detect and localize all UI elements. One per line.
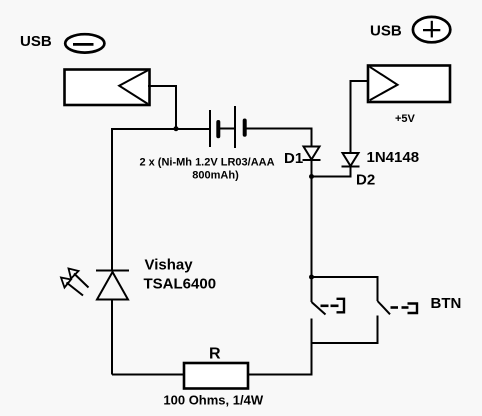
diode D1 bbox=[303, 147, 321, 161]
svg-text:+5V: +5V bbox=[395, 113, 416, 125]
wire switch S1 bottom contact bbox=[311, 319, 313, 375]
switch S2 actuator dashes bbox=[391, 306, 409, 309]
switch S2 blade bbox=[378, 301, 391, 314]
wire switch parallel top bbox=[312, 277, 378, 301]
junction dot A bbox=[174, 126, 179, 131]
svg-text:TSAL6400: TSAL6400 bbox=[144, 276, 217, 293]
svg-text:D1: D1 bbox=[284, 150, 303, 167]
switch S1 button cap bbox=[337, 299, 345, 313]
svg-text:R: R bbox=[209, 346, 221, 363]
diode D2 bbox=[342, 153, 360, 167]
wire battery left bbox=[113, 128, 209, 130]
svg-text:Vishay: Vishay bbox=[145, 257, 194, 274]
wire left rail bbox=[111, 128, 113, 271]
wire D1 cathode down rail bbox=[311, 160, 313, 302]
switch S1 actuator dashes bbox=[321, 304, 339, 307]
USB minus symbol bbox=[65, 34, 104, 52]
switch S2 button cap bbox=[408, 304, 418, 314]
LED D3 bbox=[96, 271, 129, 300]
wire switch parallel bottom bbox=[312, 316, 378, 344]
junction dot C bbox=[309, 275, 314, 280]
resistor R bbox=[184, 363, 248, 389]
wire LED anode down bbox=[111, 300, 113, 375]
svg-text:2 x (Ni-Mh 1.2V LR03/AAA: 2 x (Ni-Mh 1.2V LR03/AAA bbox=[139, 157, 274, 169]
svg-text:1N4148: 1N4148 bbox=[367, 149, 420, 166]
svg-text:D2: D2 bbox=[356, 172, 375, 189]
svg-text:800mAh): 800mAh) bbox=[192, 170, 239, 182]
svg-text:100 Ohms, 1/4W: 100 Ohms, 1/4W bbox=[163, 393, 263, 408]
USB plus symbol bbox=[413, 17, 450, 42]
svg-text:USB: USB bbox=[370, 23, 402, 40]
svg-text:USB: USB bbox=[20, 33, 52, 50]
LED D3 emitter arrows bbox=[61, 269, 89, 296]
wire bottom right bbox=[248, 374, 313, 376]
connector J2 USB plus plug bbox=[368, 66, 450, 103]
svg-text:BTN: BTN bbox=[431, 295, 462, 312]
wire battery right to D1 bbox=[246, 129, 312, 147]
junction dot B bbox=[309, 174, 314, 179]
connector J1 USB minus plug bbox=[65, 70, 150, 106]
battery B1 bbox=[210, 106, 245, 148]
wire J1 to junction bbox=[148, 86, 176, 129]
wire J2 to D2 anode bbox=[351, 81, 369, 153]
switch S1 blade bbox=[312, 302, 326, 315]
wire D2 cathode to junction B bbox=[312, 167, 351, 177]
wire bottom left bbox=[112, 374, 184, 376]
